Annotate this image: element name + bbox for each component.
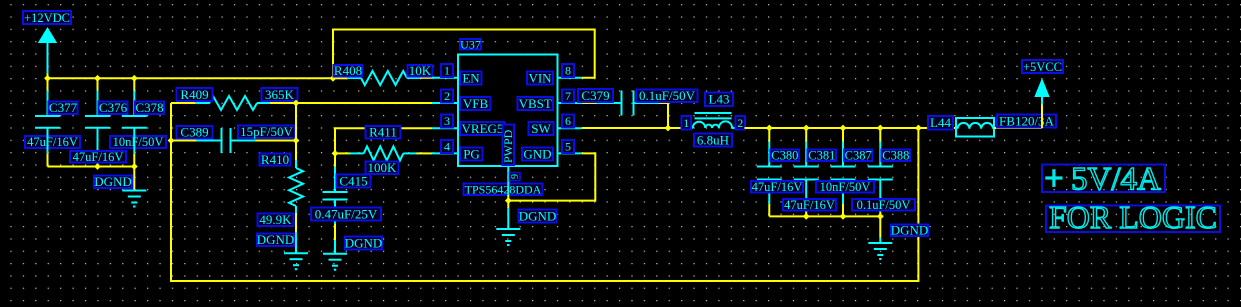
pin 6 SW stub [558,127,583,129]
wire VREG5 row [335,128,432,167]
capacitor C381 [794,142,819,205]
wire R411 right lead [417,152,433,154]
wire VFB row [296,102,432,104]
wire feedback loop [171,103,918,281]
wire C387 bottom lead [842,204,844,216]
svg-text:C380: C380 [771,149,798,163]
svg-text:+12VDC: +12VDC [24,11,70,25]
wire C388 top lead [879,128,881,142]
svg-text:DGND: DGND [345,235,383,250]
junction loop C389 [168,137,175,144]
pin 4 PG stub [432,152,458,154]
label C380 [771,149,800,163]
wire C376 bottom lead [97,153,99,166]
svg-text:1: 1 [444,64,450,78]
inductor L43 [681,113,745,128]
label L44 [928,115,953,130]
svg-text:+5VCC: +5VCC [1023,60,1062,74]
svg-text:DGND: DGND [257,232,295,247]
wire R409 right lead [270,102,296,104]
value C415 0.47uF/25V [311,206,381,221]
svg-text:2: 2 [737,116,743,130]
capacitor C389 [197,128,256,153]
value R409 365K [262,87,298,102]
junction out C387 [840,125,847,132]
label C381 [808,149,837,163]
value C380 47uF/16V [751,180,803,194]
svg-text:EN: EN [462,70,480,85]
wire C388 bottom lead [879,204,881,216]
note box FOR LOGIC [1046,199,1220,235]
wire out gnd drop [879,216,881,237]
svg-text:SW: SW [531,121,551,136]
wire chip gnd stem [507,208,509,229]
junction gnd rail C378 [131,163,138,170]
ground input caps [122,191,146,207]
label R410 [260,152,291,167]
svg-text:C388: C388 [882,149,909,163]
wire R410 top lead [295,103,297,161]
pin 2 VFB stub [432,102,458,104]
wire C380 bottom lead [768,204,770,216]
value C387 10nF/50V [816,180,874,194]
label C377 [49,100,78,115]
ground chip [496,229,520,245]
junction gnd C381 [803,213,810,220]
svg-text:10K: 10K [409,63,432,78]
capacitor C376 [85,91,110,154]
wire C377 top lead [47,78,49,91]
svg-text:49.9K: 49.9K [259,212,292,227]
junction gnd rail C376 [94,163,101,170]
wire C415 bottom lead [334,224,336,240]
svg-text:FOR LOGIC: FOR LOGIC [1049,199,1217,235]
capacitor C380 [757,142,782,205]
junction rail C377 [44,75,51,82]
pin number 2 [441,89,453,103]
junction gnd C387 [840,213,847,220]
power arrow +12VDC [38,27,57,74]
svg-text:R408: R408 [334,63,362,78]
svg-text:0.1uF/50V: 0.1uF/50V [857,198,911,212]
label DGND chip [519,208,557,223]
pin 9 PWPD stub [507,166,509,195]
label TPS56428DDA [464,182,543,196]
label C376 [99,100,128,115]
wire C381 top lead [805,128,807,142]
pin 3 VREG5 stub [432,127,458,129]
pin name VREG5 [461,121,505,136]
svg-text:VIN: VIN [528,70,552,85]
wire C415 gnd stem [334,240,336,254]
pin number 3 [441,114,453,128]
resistor R408 [347,71,421,85]
svg-text:9: 9 [510,174,521,179]
svg-text:C381: C381 [808,149,835,163]
junction out loop [915,125,922,132]
pin name SW [529,121,554,136]
junction out C380 [766,125,773,132]
label DGND C415 [345,235,383,250]
wire R410 gnd stem [295,232,297,253]
svg-text:8: 8 [565,64,571,78]
svg-text:R410: R410 [261,152,289,167]
svg-text:5V/4A: 5V/4A [1071,161,1161,197]
pin number L43-1 [682,116,692,130]
value C381 47uF/16V [783,198,836,212]
power label +12VDC [23,11,71,25]
svg-text:FB120/3A: FB120/3A [999,113,1055,128]
wire out gnd stem [879,238,881,244]
wire +5VCC stem yellow [1041,105,1043,129]
wire R409 left lead [171,102,196,104]
wire VIN top loop [333,30,595,79]
value R411 100K [366,160,399,175]
svg-text:10nF/50V: 10nF/50V [113,135,164,149]
svg-text:6.8uH: 6.8uH [697,132,729,147]
resistor R410 [289,160,303,214]
wire C379 to SW [659,103,669,128]
svg-text:6: 6 [565,114,571,128]
wire C378 top lead [133,78,135,91]
capacitor C415 [323,167,348,226]
wire C381 bottom lead [805,204,807,216]
svg-text:GND: GND [523,146,551,161]
ground R410 [284,253,308,269]
svg-text:10nF/50V: 10nF/50V [820,180,871,194]
wire output row [745,127,957,129]
label C388 [882,149,911,163]
wire R408 right lead [420,77,432,79]
capacitor C379 [597,91,659,116]
svg-text:R409: R409 [180,87,208,102]
value C378 10nF/50V [110,135,166,149]
junction gnd C388 [877,213,884,220]
pin number 5 [562,140,574,154]
wire R410 bottom lead [295,213,297,232]
pin 8 VIN stub [558,77,583,79]
svg-text:C387: C387 [845,149,872,163]
wire L44 out [994,127,1042,129]
svg-text:15pF/50V: 15pF/50V [240,124,293,139]
note box +5V/4A [1042,161,1165,197]
svg-text:0.47uF/25V: 0.47uF/25V [315,206,378,221]
svg-text:R411: R411 [369,125,397,140]
junction 12V R408 [330,75,337,82]
wire pin5 GND route [508,153,595,200]
svg-text:PG: PG [463,146,480,161]
svg-text:3: 3 [444,114,450,128]
ground C415 [323,254,347,270]
wire pin9 down [507,195,509,208]
capacitor C388 [868,142,893,205]
svg-text:PWPD: PWPD [501,129,515,163]
svg-text:C376: C376 [99,100,128,115]
pin name EN [461,70,482,85]
pin name GND [522,146,553,161]
pin 5 GND stub [558,152,583,154]
value C389 15pF/50V [238,124,295,139]
wire C376 top lead [97,78,99,91]
value L43 6.8uH [694,132,732,147]
label C415 [337,173,371,188]
svg-text:C377: C377 [49,100,78,115]
pin number 7 [562,89,574,103]
value R410 49.9K [258,212,294,227]
capacitor C387 [831,142,856,205]
wire R411 left lead [335,152,351,154]
pin number 1 [441,64,453,78]
ground output caps [868,243,892,259]
pin name VFB [461,96,491,111]
label U37 [460,37,481,51]
svg-text:47uF/16V: 47uF/16V [752,180,803,194]
wire R408 left lead [333,77,348,79]
junction pin9 gnd [505,197,512,204]
pin number L43-2 [736,116,746,130]
pin number 9 (rotated) [510,173,522,181]
svg-text:4: 4 [444,140,450,154]
pin name VIN [527,70,553,85]
value C379 0.1uF/50V [637,88,698,103]
op-amp U37 body (regulator IC) [458,55,558,167]
wire input caps ground rail [48,166,135,168]
wire C380 top lead [768,128,770,142]
label R411 [366,125,401,140]
svg-text:VFB: VFB [463,96,489,111]
svg-text:L44: L44 [930,115,951,130]
junction VFB node [293,100,300,107]
junction out C388 [877,125,884,132]
capacitor C378 [122,91,147,154]
svg-text:47uF/16V: 47uF/16V [73,150,124,164]
svg-text:7: 7 [565,89,571,103]
svg-text:L43: L43 [709,92,730,107]
junction out C381 [803,125,810,132]
pin number 8 [562,64,574,78]
svg-text:100K: 100K [368,160,398,175]
junction C379 SW [665,125,672,132]
junction rail C378 [131,75,138,82]
label C379 [578,88,613,103]
wire +12V rail [48,77,334,79]
value FB120/3A [997,113,1056,128]
svg-text:U37: U37 [460,37,481,51]
wire C378 bottom lead [133,153,135,166]
power arrow +5VCC [1034,78,1049,105]
svg-text:DGND: DGND [891,223,929,238]
wire to DGND left [133,167,135,191]
pin number 4 [441,140,453,154]
label L43 [705,92,733,107]
value C388 0.1uF/50V [852,198,915,212]
resistor R409 [195,96,271,110]
value C376 47uF/16V [70,150,126,164]
svg-text:VBST: VBST [519,96,552,111]
label R408 [334,63,363,78]
capacitor C377 [35,91,60,154]
wire C389 left lead [171,140,197,142]
resistor R411 [350,146,418,160]
wire C387 top lead [842,128,844,142]
value C377 47uF/16V [25,135,80,149]
label C387 [844,149,873,163]
svg-text:C389: C389 [180,125,208,140]
label C378 [135,100,164,115]
svg-text:1: 1 [683,116,689,130]
value R408 10K [408,63,433,78]
pin name VBST [518,96,554,111]
svg-text:47uF/16V: 47uF/16V [27,135,78,149]
svg-text:365K: 365K [265,87,295,102]
label DGND output [891,223,929,238]
label C389 [177,125,213,140]
wire SW row [582,127,681,129]
wire C389 right lead [256,140,297,142]
svg-text:VREG5: VREG5 [462,121,504,136]
svg-text:47uF/16V: 47uF/16V [784,198,835,212]
pin 7 VBST stub [558,102,583,104]
label DGND R410 [257,232,295,247]
svg-text:0.1uF/50V: 0.1uF/50V [639,88,696,103]
svg-text:C379: C379 [581,88,609,103]
wire C377 bottom lead [47,153,49,166]
svg-text:DGND: DGND [519,208,557,223]
svg-text:DGND: DGND [94,174,132,189]
wire VBST lead [582,102,597,104]
pin 1 EN stub [432,77,458,79]
pin name PG [461,146,483,161]
power label +5VCC [1022,60,1063,74]
svg-text:C378: C378 [135,100,163,115]
svg-text:5: 5 [565,140,571,154]
svg-text:TPS56428DDA: TPS56428DDA [465,182,542,196]
label DGND input caps [94,174,132,189]
junction VREG5 R411 [332,150,339,157]
pin number 6 [562,114,574,128]
pin name PWPD (rotated) [501,125,515,166]
wire +12VDC stem [47,74,49,79]
ferrite bead L44 [956,118,994,137]
junction rail C376 [94,75,101,82]
junction C389 R410 [293,137,300,144]
svg-text:2: 2 [444,89,450,103]
svg-text:C415: C415 [339,173,367,188]
label R409 [177,87,213,102]
wire output caps gnd rail [769,215,883,217]
